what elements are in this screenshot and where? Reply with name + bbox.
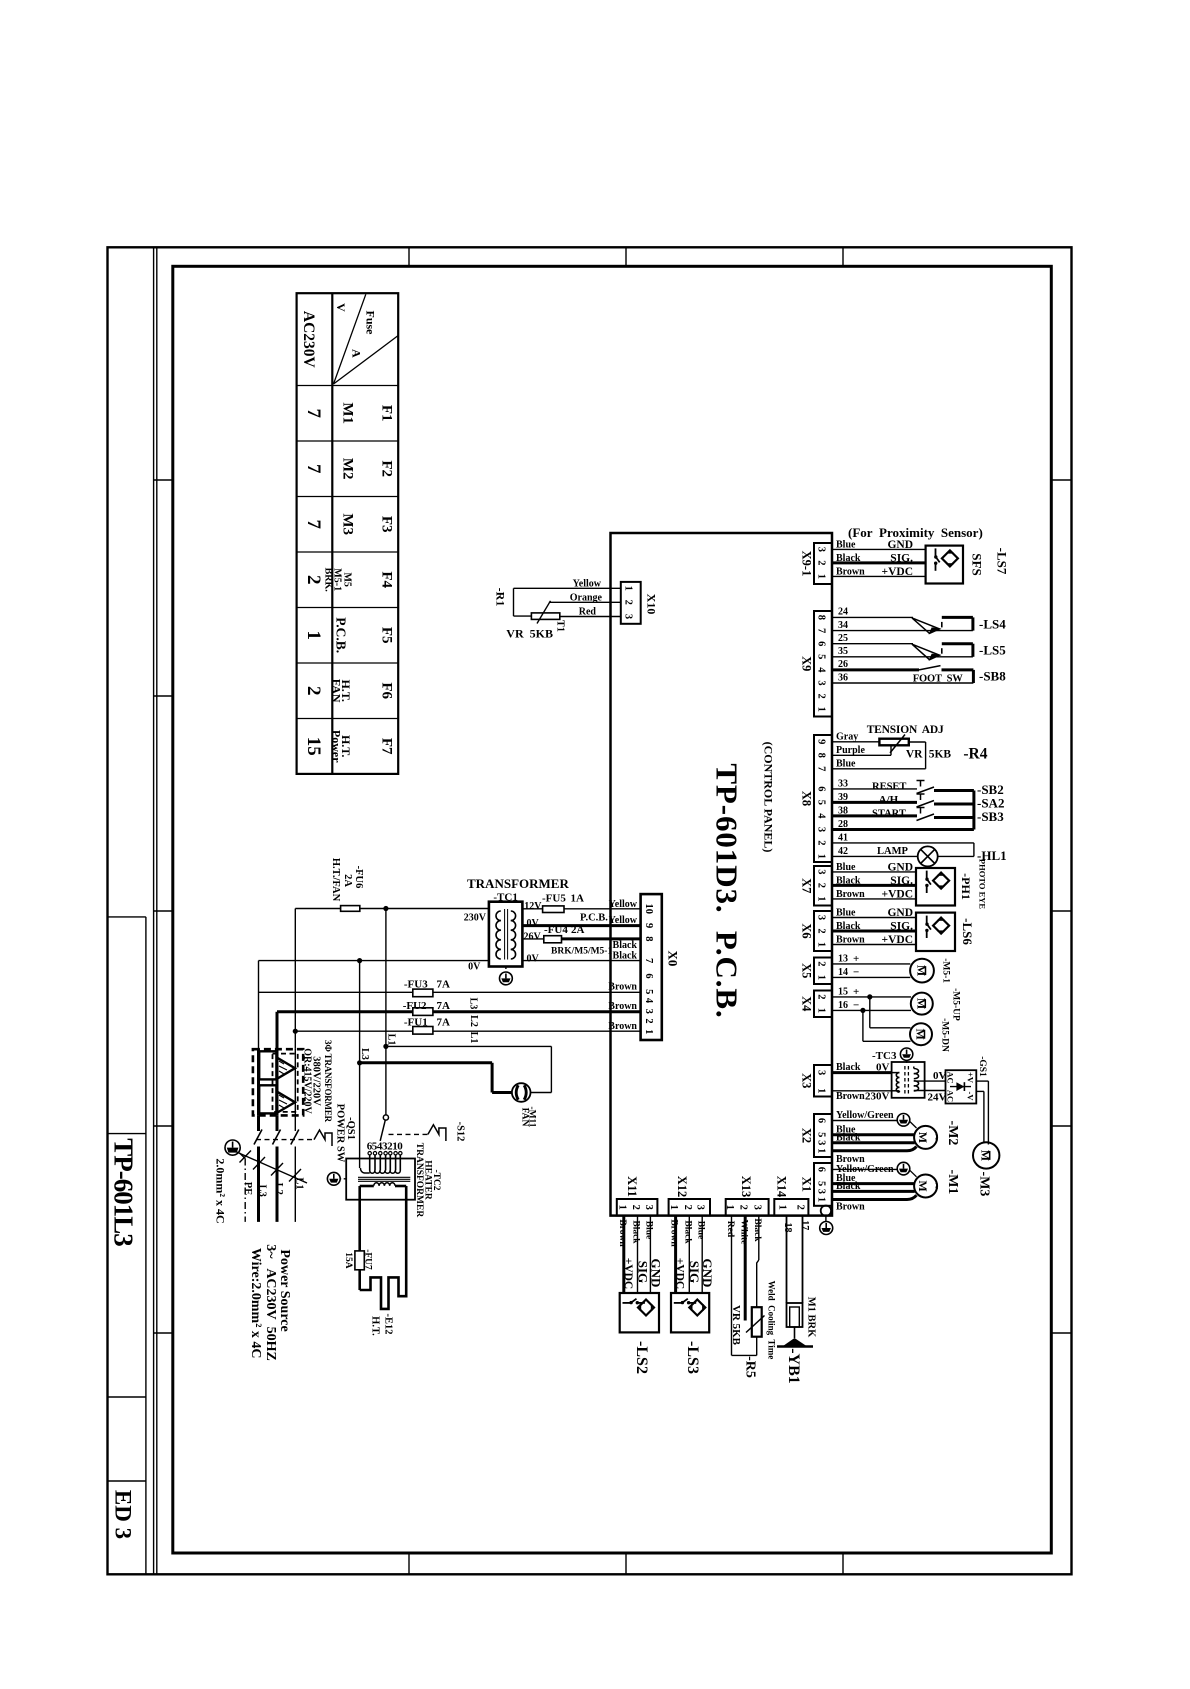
wire L3 into TC2 primary [359,1063,361,1168]
svg-text:A/H: A/H [879,794,899,806]
svg-text:P.C.B.: P.C.B. [334,617,349,653]
wire X7 Brown +VDC [832,898,916,900]
wire thick L3 to fan [360,1061,493,1064]
svg-text:−: − [853,1000,859,1012]
cable slashes [240,1151,252,1163]
svg-text:Brown: Brown [836,1091,865,1102]
svg-text:2: 2 [682,1205,693,1210]
svg-text:1: 1 [816,854,827,859]
svg-text:Blue: Blue [644,1221,654,1239]
svg-text:Weld Cooling Time: Weld Cooling Time [766,1281,776,1360]
fuse FU3 7A [259,991,413,993]
wire FU5 to X0 pin10 (Yellow) [564,908,641,910]
wire 24 [832,616,913,618]
svg-text:5: 5 [816,1181,827,1186]
svg-text:Black: Black [836,875,861,886]
fuse table header diagonals [334,294,366,384]
svg-text:Brown: Brown [836,889,865,900]
3ph transformer winding upper [278,1058,295,1078]
svg-text:3: 3 [695,1205,706,1210]
svg-text:34: 34 [838,620,848,631]
svg-text:8: 8 [643,936,654,941]
svg-text:3: 3 [816,1070,827,1075]
wire X1 Black [832,1190,915,1193]
fuse table [297,293,399,774]
svg-text:+VDC: +VDC [882,566,913,578]
svg-text:SIG: SIG [636,1261,651,1283]
svg-text:2: 2 [643,1018,654,1023]
svg-text:-FU4: -FU4 [544,924,568,936]
svg-text:+VDC: +VDC [882,888,913,900]
svg-text:14: 14 [838,967,848,978]
svg-text:3: 3 [816,547,827,552]
wire 28 common [832,828,974,831]
connector X5 [814,958,832,985]
svg-text:X0: X0 [666,951,681,967]
svg-text:TENSION ADJ: TENSION ADJ [867,724,944,736]
svg-text:F2: F2 [379,460,395,477]
svg-text:+: + [853,986,859,998]
wire X9-1 Brown +VDC [832,575,926,577]
svg-text:7: 7 [816,766,827,771]
svg-text:15: 15 [303,737,324,756]
svg-text:L3: L3 [359,1048,370,1060]
svg-text:1: 1 [643,1029,654,1034]
wire 34 and LS4 loop [832,630,973,632]
svg-text:VR: VR [906,748,923,760]
svg-text:2: 2 [795,1205,806,1210]
fuse FU5 1A [543,906,564,913]
svg-text:7: 7 [303,519,324,529]
svg-text:-M5-UP: -M5-UP [951,988,961,1021]
wire L1 vertical [294,909,296,1049]
svg-text:2: 2 [303,575,324,585]
svg-text:6: 6 [643,973,654,978]
svg-text:3Φ TRANSFORMER: 3Φ TRANSFORMER [323,1040,333,1123]
svg-text:26V: 26V [524,932,542,943]
svg-text:TRANSFORMER: TRANSFORMER [414,1143,424,1218]
svg-text:Black: Black [836,553,861,564]
svg-text:Brown: Brown [836,1201,865,1212]
svg-text:Brown: Brown [608,1001,637,1012]
svg-text:L3: L3 [257,1185,268,1197]
border tick marks left [154,479,173,481]
svg-text:3: 3 [816,680,827,685]
svg-text:-FU6: -FU6 [353,866,364,889]
svg-text:6: 6 [816,641,827,646]
svg-text:X3: X3 [800,1073,814,1088]
wire X1 Yellow/Green [832,1168,897,1170]
svg-text:Black: Black [682,1220,692,1244]
svg-text:Black: Black [631,1220,641,1244]
svg-text:FAN: FAN [519,1108,529,1127]
fuse FU2 7A [277,1010,413,1013]
svg-text:SIG.: SIG. [890,552,913,564]
3-phase transformer dashed box [253,1049,303,1115]
svg-text:-M3: -M3 [977,1172,992,1197]
connector X8 [814,735,832,862]
svg-text:1: 1 [816,574,827,579]
svg-text:24V: 24V [928,1092,947,1104]
heater transformer TC2 [346,1159,415,1200]
svg-text:FAN: FAN [330,679,344,703]
svg-text:-R4: -R4 [963,746,987,763]
svg-text:2: 2 [738,1205,749,1210]
svg-text:Yellow: Yellow [573,579,602,590]
motor M2 [914,1126,944,1149]
wire TC1 0V left to L3 [259,960,489,962]
svg-text:Wire:2.0mm² x 4C: Wire:2.0mm² x 4C [248,1248,263,1359]
svg-text:+: + [853,953,859,965]
svg-text:5KB: 5KB [929,748,952,760]
svg-text:42: 42 [838,846,848,857]
svg-text:0V: 0V [933,1070,947,1082]
svg-text:Yellow: Yellow [609,915,638,926]
fuse FU7 15A [355,1251,364,1270]
svg-text:+V: +V [966,1072,976,1084]
svg-text:TRANSFORMER: TRANSFORMER [467,876,569,891]
svg-text:-LS4: -LS4 [979,617,1006,632]
wire 14 - [832,976,910,978]
svg-text:Blue: Blue [836,908,856,919]
svg-text:M: M [914,1029,928,1040]
wire TC1 12V to FU5 [522,908,542,910]
svg-text:-QS1: -QS1 [345,1117,356,1140]
svg-text:-M5-DN: -M5-DN [940,1018,950,1052]
svg-text:X9-1: X9-1 [800,551,814,577]
svg-text:2: 2 [303,686,324,696]
ground symbol M1 [897,1162,910,1175]
X13 wires to R5 [758,1216,760,1260]
svg-text:6: 6 [816,1167,827,1172]
svg-text:X7: X7 [800,878,814,893]
wire 25 [832,643,913,645]
svg-text:+VDC: +VDC [622,1258,634,1289]
svg-text:L1: L1 [386,1034,397,1046]
svg-text:7A: 7A [437,1016,451,1028]
svg-text:M1 BRK: M1 BRK [806,1297,817,1338]
svg-text:-R1: -R1 [493,588,507,607]
svg-text:1: 1 [303,630,324,640]
foot switch SB8 [919,666,941,670]
lamp HL1 [832,842,974,844]
selector SA2 A/H [832,801,917,804]
proximity sensor LS3 [671,1293,709,1332]
svg-text:25: 25 [838,633,848,644]
connector X3 [814,1065,832,1097]
svg-text:AC230V: AC230V [300,311,317,369]
wire X9-1 Blue GND [832,548,926,550]
svg-text:7: 7 [303,464,324,474]
3ph transformer winding dashed rect [273,1054,298,1112]
wire 13 + [832,963,910,965]
X11 wires to LS2 [649,1216,651,1293]
svg-text:L3: L3 [468,998,479,1010]
svg-text:-V: -V [966,1092,976,1102]
svg-text:5: 5 [816,800,827,805]
power switch QS1 [257,1115,260,1131]
svg-text:36: 36 [838,672,848,683]
svg-text:SIG.: SIG. [890,921,913,933]
svg-text:-GS1: -GS1 [977,1056,987,1077]
svg-text:0V: 0V [527,918,540,929]
TC3 secondary wires to GS1 [914,1080,946,1082]
svg-text:X14: X14 [775,1176,789,1198]
svg-text:GND: GND [887,907,913,919]
svg-text:-FU1: -FU1 [404,1016,428,1028]
thermistor R1 with VR 5KB [513,588,515,616]
svg-text:M: M [916,1180,930,1191]
svg-text:16: 16 [838,1000,848,1011]
svg-text:5: 5 [816,654,827,659]
motor M1 [914,1175,944,1198]
svg-text:F4: F4 [379,571,395,588]
svg-text:-M2: -M2 [945,1121,960,1146]
wire X2 Yellow/Green [832,1120,897,1122]
svg-text:3: 3 [751,1205,762,1210]
svg-text:TP-601D3. P.C.B.: TP-601D3. P.C.B. [710,763,745,1018]
push button SB3 START [832,814,917,817]
motor M3 [973,1142,999,1168]
TC2 secondary [374,1183,379,1186]
svg-text:START: START [872,809,906,820]
svg-text:2: 2 [623,600,634,605]
svg-text:Yellow: Yellow [609,899,638,910]
svg-text:X10: X10 [645,594,659,615]
svg-text:X6: X6 [800,923,814,938]
svg-text:Brown: Brown [617,1219,627,1247]
svg-text:X5: X5 [800,963,814,978]
svg-text:1: 1 [816,1008,827,1013]
svg-text:1: 1 [816,942,827,947]
PE terminal circle [821,1206,831,1216]
svg-text:1: 1 [816,975,827,980]
switch S12 [383,1115,388,1120]
svg-text:X11: X11 [625,1176,639,1197]
svg-text:Blue: Blue [836,862,856,873]
svg-text:0V: 0V [876,1062,890,1074]
wire L1 through transformer [294,1049,296,1116]
svg-text:3: 3 [816,915,827,920]
svg-text:-LS3: -LS3 [684,1341,701,1374]
wire L2 vertical [276,1012,279,1049]
svg-text:OR:415V/220V: OR:415V/220V [301,1048,312,1114]
svg-text:-FU3: -FU3 [404,978,428,990]
wire TC1 26V to FU4 [522,938,543,940]
svg-text:V: V [334,303,348,312]
svg-text:38: 38 [838,805,848,816]
svg-text:3: 3 [816,1189,827,1194]
wire X1 Brown [832,1198,907,1201]
wire X2 Blue [832,1133,914,1136]
svg-text:Brown: Brown [608,982,637,993]
svg-text:-LS7: -LS7 [995,548,1010,575]
svg-text:1: 1 [816,1148,827,1153]
svg-text:41: 41 [838,832,848,843]
wire TC1 0V to X0 pin9 (Yellow) [522,924,640,927]
svg-text:2: 2 [816,928,827,933]
heater circuit wires [358,1186,361,1251]
svg-text:7A: 7A [437,978,451,990]
svg-text:Black: Black [836,1132,861,1143]
3ph transformer inner rect lower [259,1085,276,1113]
svg-text:+VDC: +VDC [882,934,913,946]
wire X7 Blue GND [832,871,916,873]
svg-text:1: 1 [816,896,827,901]
connector X9-1 [814,543,832,584]
connector X2 [814,1114,832,1157]
connector X10 [621,582,641,624]
svg-text:-SB8: -SB8 [979,669,1006,684]
connector X14 [774,1199,808,1216]
potentiometer R5 VR 5KB [752,1307,762,1337]
connector X9 [814,611,832,717]
svg-text:-TC3: -TC3 [872,1050,897,1062]
svg-text:3~ AC230V 50HZ: 3~ AC230V 50HZ [263,1244,278,1361]
svg-text:5: 5 [816,1132,827,1137]
wire X10-2 Orange [549,601,621,603]
svg-text:LAMP: LAMP [877,846,908,857]
svg-text:-FU7: -FU7 [363,1249,373,1270]
svg-text:2A: 2A [571,924,585,936]
svg-text:1: 1 [668,1205,679,1210]
svg-text:F5: F5 [379,627,395,644]
photo eye sensor LS6 [916,913,955,951]
svg-text:2: 2 [816,961,827,966]
svg-text:M: M [914,998,928,1009]
wire X3 Black 0V [832,1071,892,1074]
border tick marks top [408,247,410,266]
border tick marks right [1051,479,1072,481]
ground symbol M2 [897,1114,910,1127]
connector X4 [814,991,832,1018]
svg-text:-M1: -M1 [945,1170,960,1195]
svg-text:PE: PE [242,1182,253,1195]
svg-text:F6: F6 [379,682,395,699]
connector X13 [726,1199,769,1216]
push button SB2 RESET [832,788,917,790]
svg-text:Black: Black [836,1181,861,1192]
svg-text:6: 6 [816,1118,827,1123]
svg-text:Brown: Brown [608,1021,637,1032]
svg-text:Blue: Blue [836,539,856,550]
fuse FU4 2A [544,936,562,943]
svg-text:1: 1 [816,707,827,712]
svg-text:Gray: Gray [836,731,858,742]
svg-text:AC: AC [946,1090,956,1102]
svg-text:3: 3 [816,869,827,874]
svg-text:M: M [979,1150,993,1161]
motor M5-1 [910,959,934,983]
svg-text:TP-601L3: TP-601L3 [109,1138,139,1246]
3ph transformer inner rect upper [259,1051,276,1079]
svg-text:Purple: Purple [836,745,865,756]
svg-text:15: 15 [838,986,848,997]
svg-text:−: − [853,967,859,979]
svg-text:Black: Black [836,921,861,932]
TC2 core [358,1176,410,1178]
svg-text:3: 3 [623,614,634,619]
wire L3 branch to fan circuit [359,961,361,1063]
svg-text:-R5: -R5 [743,1356,758,1378]
svg-text:X13: X13 [739,1176,753,1198]
svg-text:5: 5 [643,989,654,994]
wire 16 - [832,1009,911,1011]
QS1 linkage dashed [256,1139,314,1141]
wire X10-1 Yellow [514,587,621,589]
svg-text:P.C.B.: P.C.B. [580,913,608,924]
svg-text:Orange: Orange [570,593,603,604]
svg-text:2: 2 [816,840,827,845]
svg-text:-LS6: -LS6 [960,918,975,945]
svg-text:F7: F7 [379,738,395,755]
svg-text:17: 17 [799,1220,810,1230]
svg-text:M3: M3 [340,513,356,535]
svg-text:M: M [916,1132,930,1143]
svg-text:2A: 2A [342,874,353,887]
svg-text:0V: 0V [468,962,481,973]
svg-text:X1: X1 [800,1177,814,1192]
svg-text:M1: M1 [340,402,356,424]
wire X10-3 Red [560,616,621,618]
svg-text:BRK/M5/M5-1: BRK/M5/M5-1 [551,946,612,956]
svg-text:Blue: Blue [836,758,856,769]
svg-text:SFS: SFS [970,553,985,575]
svg-text:3: 3 [816,827,827,832]
wire 35 and LS5 loop [832,656,973,658]
svg-text:Black: Black [613,951,638,962]
svg-text:Red: Red [725,1221,735,1238]
connector X6 [814,911,832,951]
proximity sensor SFS [926,546,963,584]
svg-text:24: 24 [838,607,848,618]
svg-text:Fuse: Fuse [363,311,377,336]
wire L1 branch junction to fan [385,909,387,1116]
svg-text:X4: X4 [800,996,814,1012]
motor M5-UP [911,993,933,1015]
svg-text:M: M [915,965,929,976]
svg-text:GND: GND [887,539,913,551]
svg-text:1: 1 [777,1205,788,1210]
svg-text:230V: 230V [464,913,487,924]
fan motor M11 [512,1083,531,1102]
svg-text:6: 6 [816,786,827,791]
wires to M5-DN [869,997,871,1028]
wire L2 through transformer [276,1049,279,1116]
svg-text:10: 10 [643,904,654,915]
border tick marks bottom [408,1553,410,1574]
wire TC1 0V bottom to X0 pin7 (Black) [522,960,640,962]
svg-text:T1: T1 [555,620,566,632]
photo eye sensor PH1 [916,868,955,906]
svg-text:-SB3: -SB3 [977,809,1004,824]
svg-text:-LS2: -LS2 [633,1341,650,1374]
svg-text:X9: X9 [800,656,814,671]
svg-text:VR 5KB: VR 5KB [506,627,553,641]
X12 wires to LS3 [701,1216,703,1293]
svg-text:4: 4 [816,667,827,673]
wire X3 Brown 230V [832,1090,892,1092]
svg-text:3: 3 [816,1140,827,1145]
TC2 shield ground [341,1178,346,1180]
wire FU4 to X0 pin8 (Black) [562,937,641,940]
svg-text:12V: 12V [524,901,542,912]
svg-text:2: 2 [816,883,827,888]
svg-text:6543210: 6543210 [367,1141,404,1153]
svg-text:7A: 7A [437,1000,451,1012]
svg-text:1: 1 [623,586,634,591]
TC1 windings [496,911,501,921]
